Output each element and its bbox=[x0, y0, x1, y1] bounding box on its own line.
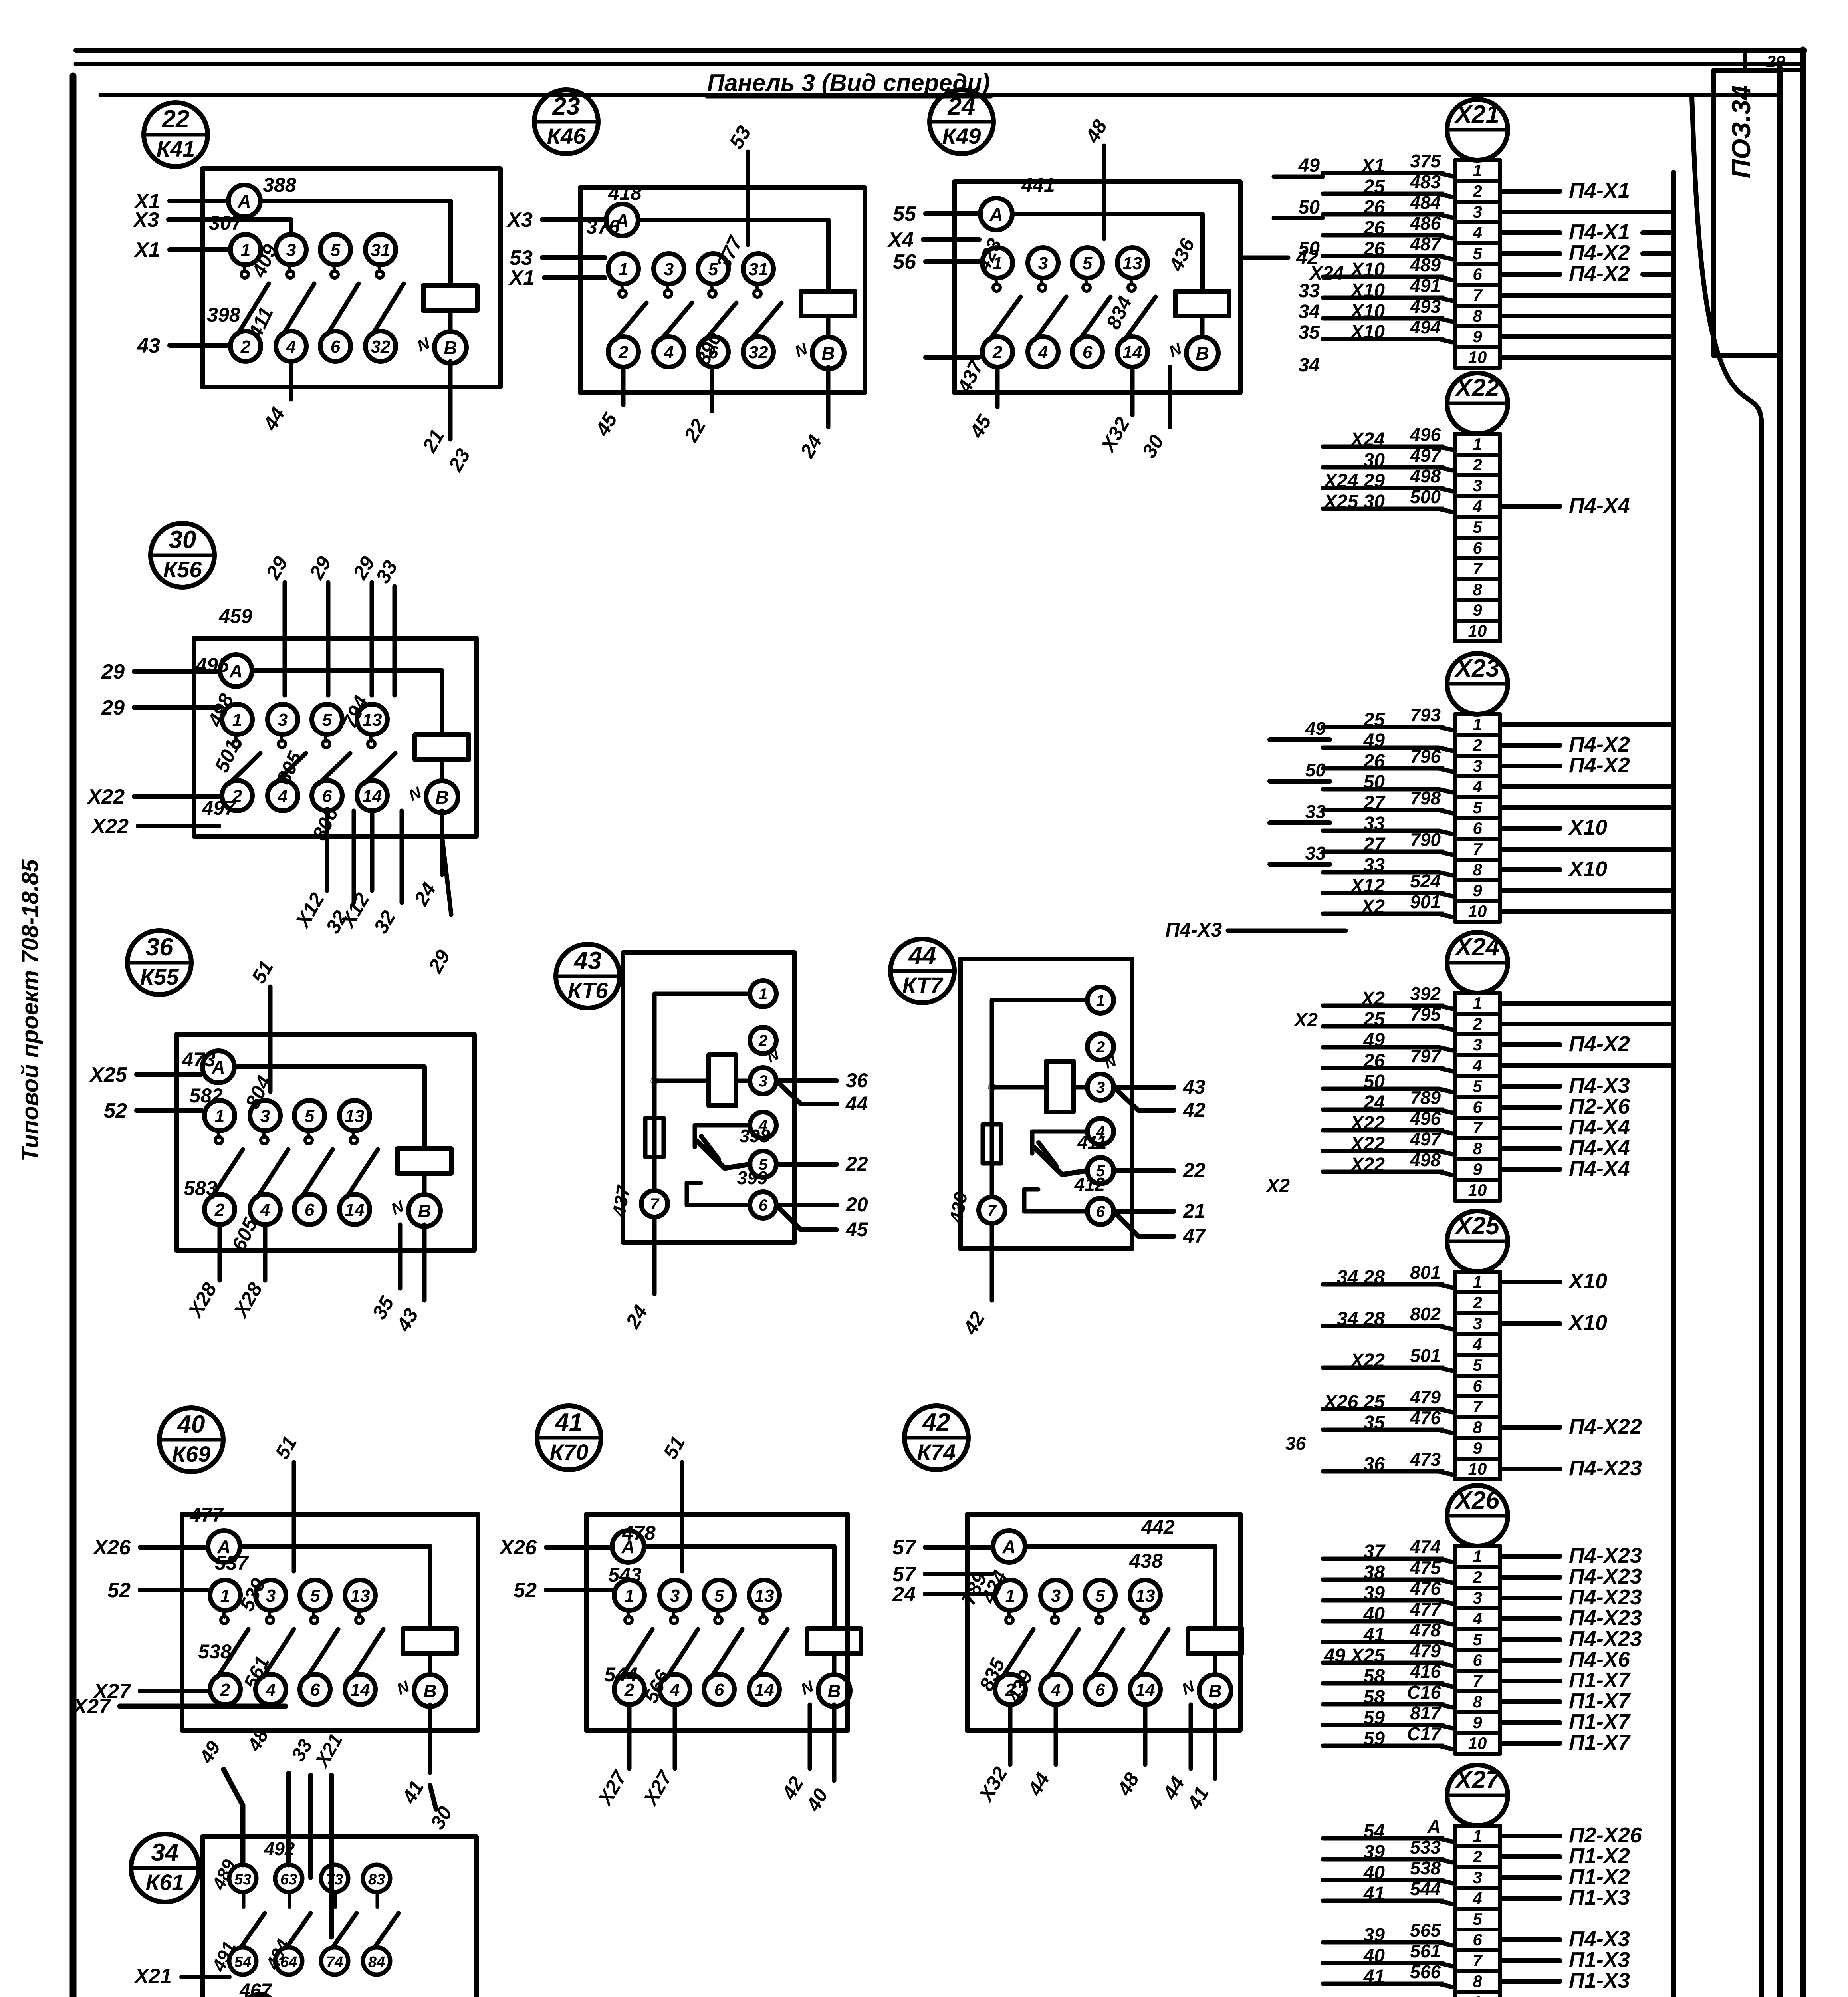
svg-text:7: 7 bbox=[1473, 1951, 1483, 1970]
svg-text:Х2: Х2 bbox=[1293, 1010, 1318, 1031]
svg-text:Х10: Х10 bbox=[1568, 1269, 1607, 1293]
svg-text:53: 53 bbox=[234, 1871, 251, 1888]
svg-text:41: 41 bbox=[1363, 1624, 1385, 1646]
svg-text:2: 2 bbox=[1472, 736, 1482, 754]
svg-text:1: 1 bbox=[232, 710, 242, 730]
svg-text:797: 797 bbox=[1410, 1046, 1442, 1066]
svg-text:51: 51 bbox=[659, 1432, 689, 1463]
svg-text:59: 59 bbox=[1364, 1728, 1385, 1749]
svg-text:476: 476 bbox=[1410, 1578, 1441, 1599]
svg-text:А: А bbox=[1427, 1816, 1441, 1837]
svg-text:411: 411 bbox=[244, 304, 278, 342]
svg-text:37: 37 bbox=[1364, 1541, 1386, 1562]
svg-text:П4-Х1: П4-Х1 bbox=[1569, 179, 1630, 202]
svg-text:КТ7: КТ7 bbox=[902, 973, 944, 998]
svg-text:44: 44 bbox=[259, 403, 289, 434]
svg-text:3: 3 bbox=[1473, 476, 1482, 495]
svg-text:8: 8 bbox=[1473, 306, 1482, 325]
svg-text:1: 1 bbox=[1473, 1826, 1482, 1845]
svg-text:N: N bbox=[1166, 340, 1185, 361]
svg-text:24: 24 bbox=[1363, 1092, 1385, 1113]
svg-text:45: 45 bbox=[965, 411, 996, 442]
svg-text:582: 582 bbox=[189, 1084, 223, 1107]
svg-text:X3: X3 bbox=[132, 208, 159, 232]
svg-text:2: 2 bbox=[240, 337, 251, 357]
svg-text:4: 4 bbox=[266, 1680, 276, 1700]
svg-text:П1-Х3: П1-Х3 bbox=[1569, 1886, 1630, 1910]
svg-text:В: В bbox=[423, 1681, 436, 1701]
svg-text:N: N bbox=[798, 1677, 817, 1699]
svg-text:7: 7 bbox=[1473, 1118, 1483, 1137]
svg-text:43: 43 bbox=[573, 947, 602, 975]
svg-text:10: 10 bbox=[1468, 1181, 1487, 1199]
svg-text:П4-Х22: П4-Х22 bbox=[1569, 1415, 1642, 1439]
svg-text:1: 1 bbox=[1473, 161, 1482, 180]
svg-text:8: 8 bbox=[1473, 1418, 1482, 1437]
svg-text:6: 6 bbox=[310, 1680, 320, 1700]
svg-text:36: 36 bbox=[1285, 1433, 1306, 1454]
svg-text:Х1: Х1 bbox=[133, 238, 160, 262]
svg-text:497: 497 bbox=[202, 797, 236, 819]
svg-text:В: В bbox=[827, 1681, 841, 1701]
svg-text:Х26: Х26 bbox=[92, 1536, 131, 1559]
svg-text:501: 501 bbox=[1410, 1345, 1441, 1366]
svg-text:П4-Х3: П4-Х3 bbox=[1569, 1074, 1630, 1098]
svg-text:Х22: Х22 bbox=[1350, 1113, 1385, 1134]
svg-text:31: 31 bbox=[749, 260, 768, 279]
svg-text:П4-Х4: П4-Х4 bbox=[1569, 494, 1630, 518]
svg-text:29: 29 bbox=[262, 552, 292, 583]
svg-text:В: В bbox=[435, 787, 448, 808]
svg-text:26: 26 bbox=[1363, 218, 1385, 239]
svg-text:В: В bbox=[1208, 1681, 1221, 1701]
svg-text:А: А bbox=[989, 204, 1003, 225]
svg-text:32: 32 bbox=[369, 907, 400, 937]
svg-text:21: 21 bbox=[1183, 1200, 1206, 1222]
svg-text:5: 5 bbox=[1473, 1077, 1482, 1096]
svg-text:К70: К70 bbox=[550, 1439, 589, 1465]
svg-text:П2-Х6: П2-Х6 bbox=[1569, 1094, 1630, 1118]
svg-text:561: 561 bbox=[1410, 1941, 1441, 1961]
svg-text:33: 33 bbox=[371, 556, 402, 587]
svg-text:Х2: Х2 bbox=[1360, 988, 1385, 1009]
svg-text:14: 14 bbox=[1123, 343, 1142, 362]
svg-text:8: 8 bbox=[1473, 860, 1482, 879]
svg-text:N: N bbox=[414, 334, 433, 355]
svg-text:24: 24 bbox=[892, 1583, 916, 1606]
svg-text:6: 6 bbox=[759, 1197, 768, 1214]
svg-text:40: 40 bbox=[177, 1411, 205, 1438]
svg-text:П1-Х7: П1-Х7 bbox=[1569, 1710, 1631, 1734]
svg-text:2: 2 bbox=[1472, 1847, 1482, 1866]
svg-text:35: 35 bbox=[368, 1292, 399, 1323]
svg-text:23: 23 bbox=[444, 445, 475, 475]
svg-text:10: 10 bbox=[1468, 902, 1487, 921]
svg-text:П2-Х26: П2-Х26 bbox=[1569, 1823, 1642, 1847]
svg-text:44: 44 bbox=[1023, 1769, 1054, 1799]
svg-text:4: 4 bbox=[1472, 777, 1482, 796]
svg-text:42: 42 bbox=[922, 1409, 950, 1436]
svg-text:307: 307 bbox=[209, 212, 243, 234]
svg-text:7: 7 bbox=[1473, 286, 1483, 304]
svg-text:3: 3 bbox=[1096, 1079, 1105, 1096]
svg-text:Х27: Х27 bbox=[638, 1766, 677, 1810]
svg-text:П1-Х3: П1-Х3 bbox=[1569, 1948, 1630, 1972]
svg-text:22: 22 bbox=[162, 105, 190, 133]
svg-text:35: 35 bbox=[1299, 322, 1321, 343]
svg-text:5: 5 bbox=[322, 710, 332, 730]
svg-text:4: 4 bbox=[1472, 1609, 1482, 1628]
svg-text:32: 32 bbox=[749, 343, 768, 362]
svg-text:Х24 29: Х24 29 bbox=[1323, 470, 1385, 492]
svg-text:Х25: Х25 bbox=[89, 1063, 127, 1086]
svg-text:N: N bbox=[406, 784, 424, 805]
svg-text:В: В bbox=[444, 337, 457, 358]
svg-text:55: 55 bbox=[893, 202, 916, 226]
svg-text:3: 3 bbox=[664, 260, 674, 279]
svg-text:Х1: Х1 bbox=[508, 266, 535, 290]
svg-text:473: 473 bbox=[182, 1048, 216, 1071]
svg-text:10: 10 bbox=[1468, 621, 1487, 640]
svg-text:41: 41 bbox=[1183, 1783, 1213, 1813]
svg-text:57: 57 bbox=[892, 1536, 916, 1559]
svg-text:Х32: Х32 bbox=[1096, 413, 1134, 457]
svg-text:5: 5 bbox=[1473, 1910, 1482, 1928]
svg-text:13: 13 bbox=[755, 1586, 774, 1606]
svg-text:30: 30 bbox=[1364, 450, 1385, 471]
svg-text:33: 33 bbox=[1364, 855, 1385, 876]
svg-text:Х28: Х28 bbox=[183, 1279, 221, 1322]
svg-text:14: 14 bbox=[351, 1680, 370, 1700]
svg-text:53: 53 bbox=[725, 122, 755, 152]
svg-text:538: 538 bbox=[1410, 1858, 1441, 1878]
svg-text:6: 6 bbox=[322, 786, 332, 806]
svg-text:1: 1 bbox=[1473, 1272, 1482, 1291]
svg-text:476: 476 bbox=[1410, 1407, 1441, 1428]
svg-text:Х22: Х22 bbox=[1350, 1350, 1385, 1371]
svg-text:475: 475 bbox=[1410, 1557, 1441, 1578]
svg-text:П4-Х23: П4-Х23 bbox=[1569, 1585, 1642, 1609]
svg-text:29: 29 bbox=[1766, 52, 1785, 71]
svg-text:1: 1 bbox=[1005, 1586, 1015, 1606]
svg-text:1: 1 bbox=[625, 1586, 634, 1606]
svg-text:X25: X25 bbox=[1454, 1212, 1500, 1240]
svg-text:4: 4 bbox=[1472, 497, 1482, 516]
svg-text:441: 441 bbox=[1021, 174, 1055, 196]
svg-text:5: 5 bbox=[305, 1106, 315, 1126]
svg-text:496: 496 bbox=[1410, 1108, 1441, 1129]
svg-text:36: 36 bbox=[846, 1069, 868, 1092]
svg-text:83: 83 bbox=[368, 1871, 385, 1888]
svg-text:41: 41 bbox=[555, 1409, 583, 1436]
svg-text:25: 25 bbox=[1363, 1009, 1386, 1030]
svg-text:К46: К46 bbox=[547, 123, 586, 149]
svg-text:1: 1 bbox=[759, 985, 767, 1003]
svg-text:498: 498 bbox=[1410, 466, 1441, 486]
svg-text:73: 73 bbox=[326, 1871, 343, 1888]
svg-text:К61: К61 bbox=[146, 1870, 184, 1895]
svg-text:14: 14 bbox=[345, 1200, 365, 1220]
svg-text:802: 802 bbox=[1410, 1304, 1441, 1324]
svg-text:583: 583 bbox=[184, 1177, 217, 1199]
svg-text:9: 9 bbox=[1473, 1160, 1482, 1179]
svg-text:398: 398 bbox=[740, 1126, 770, 1146]
svg-text:П4-Х3: П4-Х3 bbox=[1569, 1927, 1630, 1951]
svg-text:10: 10 bbox=[1468, 1459, 1487, 1478]
svg-text:32: 32 bbox=[371, 337, 391, 357]
svg-text:22: 22 bbox=[845, 1153, 868, 1175]
svg-text:26: 26 bbox=[1363, 238, 1385, 260]
svg-text:2: 2 bbox=[1096, 1038, 1105, 1056]
svg-text:52: 52 bbox=[104, 1099, 127, 1122]
svg-text:442: 442 bbox=[1141, 1516, 1175, 1538]
svg-text:43: 43 bbox=[137, 334, 160, 357]
svg-text:С16: С16 bbox=[1407, 1682, 1441, 1703]
svg-text:40: 40 bbox=[1363, 1862, 1385, 1884]
svg-text:4: 4 bbox=[1472, 1889, 1482, 1908]
svg-text:В: В bbox=[1196, 343, 1209, 364]
svg-text:29: 29 bbox=[349, 552, 379, 583]
svg-text:К56: К56 bbox=[163, 557, 202, 582]
svg-text:В: В bbox=[418, 1201, 431, 1221]
svg-text:43: 43 bbox=[392, 1304, 423, 1335]
svg-text:20: 20 bbox=[845, 1193, 868, 1216]
svg-text:14: 14 bbox=[1136, 1680, 1155, 1700]
svg-text:25: 25 bbox=[1363, 709, 1386, 731]
svg-text:500: 500 bbox=[1410, 486, 1441, 507]
svg-text:Х22: Х22 bbox=[86, 785, 125, 808]
svg-text:X27: X27 bbox=[1454, 1766, 1501, 1794]
svg-text:48: 48 bbox=[1081, 116, 1112, 147]
svg-text:50: 50 bbox=[1364, 772, 1385, 793]
svg-text:42: 42 bbox=[1183, 1099, 1206, 1121]
svg-text:Х10: Х10 bbox=[1350, 259, 1385, 280]
svg-text:42: 42 bbox=[959, 1308, 989, 1338]
svg-text:44: 44 bbox=[845, 1092, 868, 1115]
svg-text:538: 538 bbox=[198, 1640, 232, 1663]
svg-text:29: 29 bbox=[305, 552, 336, 583]
svg-text:399: 399 bbox=[737, 1167, 768, 1188]
svg-text:Х10: Х10 bbox=[1350, 301, 1385, 322]
svg-text:В: В bbox=[821, 343, 835, 364]
svg-text:2: 2 bbox=[618, 343, 629, 362]
svg-text:45: 45 bbox=[845, 1218, 868, 1241]
svg-text:489: 489 bbox=[1410, 254, 1441, 275]
svg-text:5: 5 bbox=[1473, 1356, 1482, 1374]
svg-text:392: 392 bbox=[1410, 983, 1441, 1004]
svg-text:39: 39 bbox=[1364, 1583, 1385, 1604]
svg-text:Х2: Х2 bbox=[1360, 896, 1385, 917]
svg-text:8: 8 bbox=[1473, 1139, 1482, 1158]
svg-text:X4: X4 bbox=[887, 228, 914, 252]
svg-text:474: 474 bbox=[1410, 1536, 1441, 1557]
svg-text:796: 796 bbox=[1410, 746, 1441, 767]
svg-text:54: 54 bbox=[1364, 1821, 1385, 1842]
svg-text:497: 497 bbox=[1410, 1129, 1442, 1149]
svg-text:X26: X26 bbox=[1454, 1487, 1500, 1514]
svg-text:К69: К69 bbox=[172, 1441, 211, 1467]
svg-text:3: 3 bbox=[278, 710, 288, 730]
svg-text:52: 52 bbox=[514, 1579, 537, 1602]
svg-text:479: 479 bbox=[1410, 1387, 1441, 1407]
svg-text:566: 566 bbox=[1410, 1961, 1441, 1982]
svg-text:3: 3 bbox=[1473, 1314, 1482, 1333]
svg-text:Х26: Х26 bbox=[498, 1536, 537, 1559]
svg-text:49 Х25: 49 Х25 bbox=[1324, 1645, 1385, 1666]
svg-text:8: 8 bbox=[1473, 1692, 1482, 1711]
svg-text:4: 4 bbox=[1051, 1680, 1061, 1700]
svg-text:П4-Х6: П4-Х6 bbox=[1569, 1648, 1630, 1671]
svg-text:50: 50 bbox=[1364, 1071, 1385, 1092]
svg-text:П4-Х1: П4-Х1 bbox=[1569, 220, 1630, 244]
svg-text:478: 478 bbox=[622, 1522, 656, 1544]
svg-text:П4-Х23: П4-Х23 bbox=[1569, 1564, 1642, 1588]
svg-text:6: 6 bbox=[1473, 538, 1482, 557]
svg-text:33: 33 bbox=[1364, 813, 1385, 834]
svg-text:9: 9 bbox=[1473, 881, 1482, 900]
svg-text:3: 3 bbox=[1473, 1588, 1482, 1607]
svg-text:801: 801 bbox=[1410, 1262, 1441, 1283]
svg-text:П4-Х3: П4-Х3 bbox=[1165, 919, 1222, 941]
svg-text:Х21: Х21 bbox=[311, 1730, 347, 1771]
svg-text:59: 59 bbox=[1364, 1707, 1385, 1729]
svg-text:533: 533 bbox=[1410, 1837, 1441, 1858]
svg-text:1: 1 bbox=[215, 1106, 224, 1126]
svg-text:24: 24 bbox=[948, 93, 976, 120]
svg-text:484: 484 bbox=[1410, 192, 1441, 213]
svg-text:П4-Х2: П4-Х2 bbox=[1569, 241, 1630, 265]
svg-text:412: 412 bbox=[1074, 1174, 1105, 1195]
svg-text:835: 835 bbox=[975, 1654, 1010, 1694]
svg-text:Х12: Х12 bbox=[1350, 875, 1385, 897]
svg-text:41: 41 bbox=[398, 1777, 428, 1807]
svg-text:492: 492 bbox=[264, 1838, 295, 1859]
svg-text:X21: X21 bbox=[1454, 101, 1499, 128]
svg-text:34: 34 bbox=[1299, 355, 1320, 376]
svg-text:63: 63 bbox=[280, 1871, 297, 1888]
svg-text:33: 33 bbox=[1305, 801, 1326, 822]
svg-text:2: 2 bbox=[758, 1032, 767, 1050]
svg-text:23: 23 bbox=[552, 93, 580, 120]
svg-text:6: 6 bbox=[331, 337, 341, 357]
svg-text:45: 45 bbox=[591, 409, 622, 440]
svg-text:416: 416 bbox=[1410, 1661, 1441, 1682]
svg-text:30: 30 bbox=[1138, 431, 1168, 461]
svg-text:6: 6 bbox=[1096, 1203, 1105, 1221]
svg-text:27: 27 bbox=[1363, 792, 1386, 814]
svg-text:X24: X24 bbox=[1454, 933, 1499, 961]
svg-text:П1-Х7: П1-Х7 bbox=[1569, 1668, 1631, 1692]
svg-text:33: 33 bbox=[1305, 843, 1326, 864]
svg-text:Х28: Х28 bbox=[229, 1279, 267, 1322]
svg-text:901: 901 bbox=[1410, 891, 1441, 912]
svg-text:24: 24 bbox=[796, 431, 827, 462]
svg-text:6: 6 bbox=[1473, 819, 1482, 838]
svg-text:N: N bbox=[394, 1677, 412, 1699]
svg-text:П4-Х4: П4-Х4 bbox=[1569, 1136, 1630, 1160]
svg-text:3: 3 bbox=[1051, 1586, 1061, 1606]
svg-text:Х22: Х22 bbox=[90, 815, 129, 838]
svg-text:21: 21 bbox=[418, 425, 449, 456]
svg-text:51: 51 bbox=[247, 957, 278, 987]
svg-text:22: 22 bbox=[1183, 1159, 1206, 1181]
svg-text:30: 30 bbox=[426, 1802, 456, 1833]
svg-text:X23: X23 bbox=[1454, 655, 1499, 682]
svg-text:58: 58 bbox=[1364, 1666, 1385, 1687]
svg-text:Х10: Х10 bbox=[1350, 322, 1385, 343]
svg-text:41: 41 bbox=[1363, 1883, 1385, 1904]
svg-text:А: А bbox=[1002, 1536, 1015, 1557]
svg-text:790: 790 bbox=[1410, 829, 1441, 850]
svg-text:N: N bbox=[389, 1197, 407, 1219]
svg-text:Х21: Х21 bbox=[133, 1965, 172, 1988]
svg-text:473: 473 bbox=[1410, 1449, 1441, 1470]
svg-text:2: 2 bbox=[992, 343, 1003, 362]
svg-text:13: 13 bbox=[351, 1586, 370, 1606]
svg-text:50: 50 bbox=[1305, 760, 1326, 780]
svg-text:477: 477 bbox=[189, 1504, 224, 1526]
svg-text:51: 51 bbox=[271, 1432, 301, 1463]
svg-text:34: 34 bbox=[151, 1839, 179, 1866]
svg-text:Х10: Х10 bbox=[1350, 280, 1385, 301]
svg-text:3: 3 bbox=[759, 1072, 767, 1090]
svg-text:Х27: Х27 bbox=[72, 1695, 111, 1718]
svg-text:П1-Х7: П1-Х7 bbox=[1569, 1731, 1631, 1755]
svg-text:1: 1 bbox=[1473, 715, 1482, 734]
svg-text:477: 477 bbox=[1410, 1599, 1442, 1620]
svg-text:8: 8 bbox=[1473, 1972, 1482, 1991]
svg-text:13: 13 bbox=[1123, 254, 1142, 273]
svg-text:798: 798 bbox=[1410, 788, 1441, 808]
svg-text:497: 497 bbox=[1410, 445, 1442, 466]
svg-text:1: 1 bbox=[241, 240, 250, 260]
svg-text:36: 36 bbox=[1364, 1454, 1385, 1475]
svg-text:498: 498 bbox=[1410, 1149, 1441, 1170]
svg-text:9: 9 bbox=[1473, 1439, 1482, 1457]
svg-text:13: 13 bbox=[1136, 1586, 1155, 1606]
svg-text:Х2: Х2 bbox=[1265, 1175, 1290, 1197]
svg-text:7: 7 bbox=[987, 1202, 997, 1219]
svg-text:9: 9 bbox=[1473, 601, 1482, 619]
svg-text:6: 6 bbox=[1473, 1376, 1482, 1395]
svg-text:375: 375 bbox=[1410, 151, 1441, 171]
svg-text:3: 3 bbox=[1473, 756, 1482, 775]
svg-text:Типовой проект 708-18.85: Типовой проект 708-18.85 bbox=[17, 859, 43, 1162]
svg-text:Х10: Х10 bbox=[1568, 1311, 1607, 1335]
svg-text:418: 418 bbox=[608, 182, 642, 204]
svg-text:6: 6 bbox=[305, 1200, 315, 1220]
svg-text:П4-Х4: П4-Х4 bbox=[1569, 1115, 1630, 1139]
svg-text:Х25 30: Х25 30 bbox=[1323, 491, 1385, 512]
svg-text:С17: С17 bbox=[1407, 1723, 1442, 1744]
svg-text:817: 817 bbox=[1410, 1703, 1442, 1723]
svg-text:3: 3 bbox=[1473, 202, 1482, 221]
svg-text:1: 1 bbox=[220, 1586, 230, 1606]
svg-text:X22: X22 bbox=[1454, 374, 1499, 402]
svg-text:П4-Х4: П4-Х4 bbox=[1569, 1157, 1630, 1181]
svg-text:П4-Х2: П4-Х2 bbox=[1569, 732, 1630, 756]
svg-text:438: 438 bbox=[1129, 1550, 1163, 1572]
svg-text:К41: К41 bbox=[157, 136, 195, 161]
svg-text:7: 7 bbox=[1473, 1671, 1483, 1690]
svg-text:Х10: Х10 bbox=[1568, 816, 1607, 840]
svg-text:П4-Х23: П4-Х23 bbox=[1569, 1456, 1642, 1480]
svg-text:34: 34 bbox=[1299, 301, 1320, 322]
svg-text:5: 5 bbox=[1473, 244, 1482, 263]
svg-text:41: 41 bbox=[1363, 1966, 1385, 1987]
svg-text:5: 5 bbox=[714, 1586, 724, 1606]
svg-text:483: 483 bbox=[1410, 171, 1441, 192]
